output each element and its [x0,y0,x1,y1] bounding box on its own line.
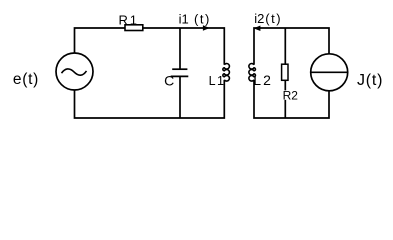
wire right-loop bottom [254,80,329,118]
resistor R2 body [282,64,288,80]
wire R2 branch upper [284,28,286,64]
svg-text:R2: R2 [283,88,299,102]
wire capacitor branch upper [179,28,181,69]
wire R2 branch lower [284,80,286,91]
svg-text:C: C [164,72,174,88]
inductor L1 coil [223,64,230,82]
inductor L2 coil [249,64,256,82]
capacitor C top plate [172,68,187,70]
voltage source e(t) U1 circle [56,53,93,90]
capacitor C bottom plate [171,75,189,77]
voltage source sine mark [62,69,87,75]
label R2 background [282,90,300,99]
svg-text:e(t): e(t) [13,71,39,88]
wire left-loop bottom [75,80,225,118]
wire capacitor branch lower [179,77,181,118]
svg-text:J(t): J(t) [357,72,383,89]
current source J(t) circle [311,54,348,91]
svg-text:(t): (t) [265,11,282,26]
svg-text:L1: L1 [209,74,226,88]
wire right-loop top and sides [254,28,329,65]
svg-text:(t): (t) [194,11,211,26]
resistor R1 body [125,25,143,31]
arrow i2 head [254,26,261,32]
svg-text:L2: L2 [253,72,273,88]
wire R2 branch below label [284,100,286,118]
svg-text:R1: R1 [119,13,139,28]
wire left-loop top and sides [75,28,225,65]
svg-text:i2: i2 [254,11,264,26]
svg-text:i1: i1 [179,11,189,26]
arrow i1 head [203,25,210,30]
current source J(t) bar [311,71,348,73]
